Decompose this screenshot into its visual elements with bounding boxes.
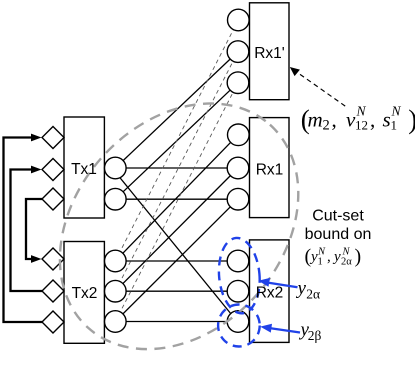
svg-text:Tx1: Tx1 bbox=[71, 161, 97, 178]
wire A1-D2 bbox=[115, 167, 238, 169]
dashed wire B1-C1 bbox=[115, 20, 238, 261]
label y2alpha bbox=[296, 278, 321, 302]
blue arrow y2beta bbox=[268, 328, 300, 333]
svg-text:): ) bbox=[408, 105, 415, 135]
wire B2-E2 bbox=[115, 290, 238, 292]
svg-text:m: m bbox=[308, 108, 323, 132]
svg-text:Rx1: Rx1 bbox=[256, 161, 284, 178]
label (y1N, y2aN) bbox=[305, 246, 362, 268]
dashed arrow to Rx1' bbox=[297, 72, 345, 106]
node E3 bbox=[227, 311, 249, 333]
node A2 bbox=[105, 188, 127, 210]
svg-text:bound on: bound on bbox=[305, 226, 372, 243]
node E1 bbox=[227, 250, 249, 272]
svg-text:Rx2: Rx2 bbox=[256, 284, 284, 301]
box Rx1' bbox=[250, 3, 290, 100]
wire A1-E3 bbox=[115, 172, 238, 323]
svg-text:N: N bbox=[356, 103, 367, 118]
svg-text:1: 1 bbox=[318, 257, 323, 268]
node A1 bbox=[105, 157, 127, 179]
svg-text:): ) bbox=[355, 246, 362, 268]
cut-set gray dashed ellipse bbox=[11, 56, 347, 392]
node D3 bbox=[227, 188, 249, 210]
svg-text:Cut-set: Cut-set bbox=[312, 208, 364, 225]
node B1 bbox=[105, 250, 127, 272]
svg-text:N: N bbox=[391, 103, 402, 118]
label y2beta bbox=[299, 319, 322, 343]
svg-text:Rx1': Rx1' bbox=[254, 45, 285, 62]
svg-text:N: N bbox=[342, 246, 351, 257]
svg-text:y: y bbox=[296, 278, 307, 299]
box Tx2 bbox=[64, 242, 104, 344]
svg-text:2α: 2α bbox=[341, 257, 352, 268]
svg-text:2α: 2α bbox=[306, 286, 320, 301]
node C3 bbox=[227, 72, 249, 94]
node B2 bbox=[105, 280, 127, 302]
diamond d5 bbox=[42, 280, 64, 302]
diamond d1 bbox=[42, 127, 64, 149]
wire B1-E1 bbox=[115, 260, 238, 262]
box Rx2 bbox=[250, 240, 290, 343]
wire A2-C3 bbox=[115, 83, 238, 200]
svg-text:1: 1 bbox=[391, 118, 398, 133]
wire A1-C2 bbox=[115, 52, 238, 168]
blue arrow y2alpha bbox=[267, 283, 298, 288]
svg-text:,: , bbox=[327, 249, 331, 265]
diamond d6 bbox=[42, 311, 64, 333]
wire B2-D2 bbox=[115, 168, 238, 291]
diamond d4 bbox=[42, 248, 64, 270]
svg-text:2: 2 bbox=[323, 118, 330, 134]
node C2 bbox=[227, 41, 249, 63]
wire A2-D3 bbox=[115, 198, 238, 200]
svg-text:N: N bbox=[317, 246, 326, 257]
svg-text:Tx2: Tx2 bbox=[72, 285, 98, 302]
node E2 bbox=[227, 280, 249, 302]
svg-text:s: s bbox=[383, 108, 391, 132]
label (m2, v12N, s1N) bbox=[301, 103, 415, 134]
svg-text:12: 12 bbox=[355, 118, 368, 133]
svg-text:,: , bbox=[332, 108, 337, 132]
feedback wire d5 to d2 bbox=[11, 170, 43, 292]
blue dashed ellipse y2alpha bbox=[216, 236, 263, 315]
wire B3-D3 bbox=[115, 199, 238, 321]
node C1 bbox=[228, 9, 250, 31]
feedback wire d6 to d1 bbox=[4, 138, 43, 323]
dashed wire B2-C2 bbox=[115, 52, 238, 292]
dashed wire B3-C3 bbox=[115, 83, 238, 322]
node D2 bbox=[227, 157, 249, 179]
diamond d3 bbox=[42, 188, 64, 210]
wire B1-D1 bbox=[115, 135, 238, 261]
box Rx1 bbox=[250, 118, 290, 218]
svg-text:,: , bbox=[370, 108, 375, 132]
node D1 bbox=[228, 124, 250, 146]
svg-text:2β: 2β bbox=[308, 328, 322, 343]
blue dashed ellipse y2beta bbox=[218, 305, 260, 347]
svg-text:y: y bbox=[332, 249, 341, 265]
node B3 bbox=[105, 311, 127, 333]
wire B3-E3 bbox=[115, 321, 238, 323]
diamond d2 bbox=[42, 159, 64, 181]
box Tx1 bbox=[64, 117, 104, 218]
feedback wire d3 to d4 bbox=[26, 199, 42, 259]
